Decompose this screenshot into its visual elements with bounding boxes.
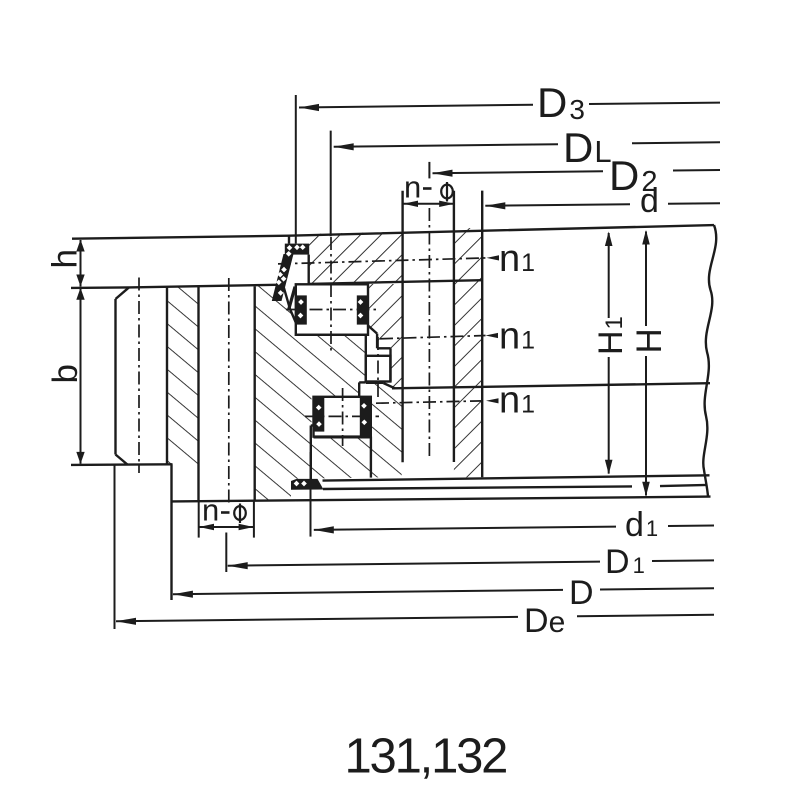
cavity floor below roller 2 [366, 382, 383, 384]
roller row 3 outline [314, 397, 371, 437]
svg-text:h: h [46, 249, 85, 268]
D1 dimension line [228, 562, 600, 566]
outer ring bottom edge left portion [71, 463, 173, 466]
nose lower corner wall [358, 382, 360, 396]
nose right face [365, 335, 367, 383]
svg-text:H: H [630, 328, 669, 353]
roller 3 cage white dots [316, 403, 367, 427]
inner ring radial race face [389, 348, 391, 381]
inner ring flange left face top corner [288, 236, 290, 244]
svg-text:n: n [404, 170, 421, 205]
svg-text:n: n [202, 493, 219, 528]
D1 extension line [225, 533, 227, 573]
bolt hole left wall (inner ring) [401, 191, 403, 463]
hatched section: lower retaining ring [372, 383, 402, 477]
roller 3 pocket left wall [310, 426, 312, 480]
svg-text:H1: H1 [592, 316, 630, 355]
bottom band line 2 right [660, 485, 708, 486]
bottom edge line [173, 497, 711, 502]
roller 3 right cage block [360, 397, 371, 436]
hatched section: inner-ring strip between bolt hole and bore [454, 228, 482, 478]
roller 1 vertical center line (DL) [330, 237, 332, 351]
arrowhead n1 row2 [486, 333, 499, 338]
lower retaining ring left face [370, 437, 372, 478]
outer ring left edge [114, 299, 116, 455]
hatched section: inner-ring top flange [309, 232, 402, 284]
arrowhead n1 row1 [487, 255, 500, 260]
arrowhead D2 [433, 170, 453, 177]
D2 dimension line [433, 171, 604, 173]
D3 dimension line [299, 105, 533, 108]
roller 3 vertical center line [342, 388, 344, 446]
arrowhead De [116, 618, 136, 625]
arrowheads H [642, 230, 650, 245]
De extension line [114, 465, 116, 629]
hatched section: outer-ring left web strip [167, 287, 199, 464]
roller 1 right cage block [357, 295, 368, 324]
roller 3 left cage block [314, 397, 324, 431]
nose top face joint to seal [283, 285, 296, 323]
grease hole center line n1 row 2 [380, 336, 486, 339]
svg-text:131,132: 131,132 [345, 730, 507, 784]
DL extension line [330, 131, 332, 237]
inner ring notch vertical face [376, 334, 378, 349]
d1 dimension line [314, 527, 616, 530]
roller row 1 white pocket [296, 284, 368, 335]
svg-text:n1: n1 [499, 316, 535, 358]
roller 3 pocket floor [314, 436, 372, 438]
H dimension line [645, 232, 647, 327]
inner ring flange underside [309, 280, 482, 284]
n-phi lower extension lines [198, 501, 200, 538]
mounting hole right wall (outer ring) [253, 286, 255, 500]
hatched section: outer-ring main body [255, 285, 372, 501]
upper seal body bar [285, 244, 309, 255]
svg-text:D3: D3 [537, 79, 585, 126]
roller row 2 outline [366, 356, 391, 382]
svg-text:n1: n1 [499, 238, 535, 280]
arrowhead D [173, 591, 193, 598]
arrowhead D1 [228, 562, 248, 569]
svg-text:d1: d1 [625, 506, 658, 544]
roller 1 axis horizontal center line [286, 309, 378, 311]
roller 1 left cage block [297, 295, 307, 324]
svg-text:D: D [569, 574, 594, 612]
inner ring bolt hole center line [428, 208, 430, 460]
outer ring mounting hole center line [228, 278, 230, 503]
roller row 1 nose top face [296, 334, 368, 336]
b dimension line [80, 288, 82, 464]
upper seal lower lip [287, 286, 296, 310]
roller row 1 outline [296, 284, 368, 335]
svg-text:d: d [640, 182, 659, 220]
arrowheads b [76, 288, 84, 300]
bottom band line 2 left [323, 486, 632, 489]
D dimension line [173, 590, 563, 594]
svg-text:DL: DL [563, 124, 612, 171]
roller row 3 white pocket [312, 397, 372, 438]
inner ring bore line [481, 191, 483, 478]
split line of lower retaining ring [392, 383, 710, 388]
arrowhead D3 [299, 104, 319, 111]
outer ring clamp hole center line [138, 278, 140, 474]
D3 extension line [295, 95, 297, 244]
D2 extension tick (hole center) [428, 162, 430, 179]
upper seal white dots [276, 244, 306, 295]
d1 extension line [310, 452, 312, 537]
lower ring chamfer [383, 383, 395, 388]
n-phi upper dimension line [403, 203, 454, 205]
h dimension line [80, 240, 82, 287]
svg-text:D1: D1 [605, 543, 645, 581]
DL dimension line [334, 144, 558, 147]
roller 3 pocket left wall top ledge [311, 424, 314, 426]
outer ring step edge (D extension) [170, 464, 172, 600]
De dimension line [116, 617, 518, 621]
outer ring inner wall left of clamp hole [166, 287, 168, 464]
svg-text:De: De [524, 602, 565, 640]
d dimension line [485, 204, 630, 206]
inner ring notch horizontal face [377, 347, 390, 349]
roller 1 cage white dots [298, 299, 364, 318]
arrowheads n-phi lower [199, 524, 214, 530]
roller row 2 white pocket [366, 356, 391, 382]
arrowhead n1 row3 [486, 398, 499, 403]
hatched section: inner-ring web right of rollers [368, 284, 402, 388]
lower seal white dots [294, 481, 307, 487]
H1 dimension line [608, 233, 610, 318]
bolt hole right wall (inner ring) [453, 191, 455, 462]
arrowheads n-phi upper [403, 201, 418, 207]
grease hole center line n1 row 1 [278, 258, 487, 264]
roller 2 vertical center line [377, 337, 379, 397]
inner ring flange left face below seal [308, 255, 310, 284]
arrowhead d1 [314, 526, 334, 533]
wavy break line [703, 225, 716, 496]
roller 3 axis horizontal center line [305, 415, 379, 417]
outer ring top-left chamfer [116, 287, 130, 299]
arrowheads H1 [605, 232, 613, 247]
mounting hole left wall (outer ring) [197, 287, 199, 501]
nose bottom face [359, 381, 366, 383]
bottom band line 1 [323, 475, 710, 480]
lower seal wiper [291, 479, 324, 490]
svg-text:b: b [46, 364, 85, 383]
outer ring top surface (h lower / b upper extension) [71, 285, 283, 288]
upper seal diagonal arm [272, 254, 294, 301]
arrowhead d [485, 202, 505, 209]
grease hole center line n1 row 3 [376, 401, 486, 403]
top surface line of inner ring (also h upper extension) [72, 225, 714, 239]
arrowheads h [76, 240, 84, 252]
inner ring chamfer below roller 1 [368, 325, 378, 333]
n-phi lower dimension line [199, 526, 254, 528]
arrowhead DL [334, 143, 354, 150]
outer ring bottom-left chamfer [116, 455, 128, 465]
